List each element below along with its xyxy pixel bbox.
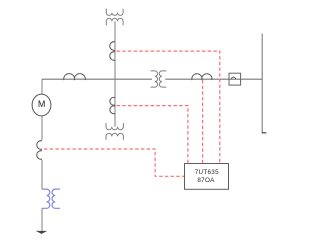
red dashed CT2 signal: right, down, right into relay left side: [44, 149, 184, 176]
wire: vertical from top transformer through feeder to bottom transformer: [114, 21, 116, 127]
busbar foot tick: [262, 132, 267, 134]
transformer T1 (grid infeed, top) upper winding: [106, 9, 123, 16]
CT2 current transformer on motor branch: [37, 141, 42, 160]
transformer T4 (blue, earthing) left winding: [42, 189, 50, 208]
meter bump inside square: [231, 77, 235, 79]
transformer T1 lower winding: [106, 18, 123, 25]
transformer T2 lower winding: [106, 133, 123, 140]
inductor L1 on feeder (left): [64, 74, 86, 80]
transformer T4 right winding: [52, 189, 60, 208]
inductor L2 on feeder (right): [192, 74, 212, 80]
svg-text:M: M: [38, 99, 46, 109]
svg-text:87OA: 87OA: [197, 177, 215, 184]
CT1 current transformer on main vertical: [110, 42, 115, 61]
relay box 7UT635: [185, 164, 229, 190]
CT3 current transformer below feeder junction: [110, 97, 115, 113]
wire: blue transformer to earth terminator: [41, 208, 43, 231]
meter/device square on feeder: [229, 73, 241, 85]
wire: CT2 to blue transformer: [41, 160, 43, 189]
svg-text:7UT635: 7UT635: [195, 169, 219, 176]
red dashed CT3 signal: right then down to relay: [117, 106, 188, 164]
red dashed inductor tap signal: down to relay: [202, 80, 204, 163]
busbar vertical right: [261, 34, 263, 133]
transformer T3 (horizontal, on feeder) left winding: [151, 71, 158, 87]
wire: motor branch vertical left: [41, 79, 43, 94]
wire: below motor to CT2: [41, 116, 43, 140]
transformer T3 right winding: [159, 71, 166, 87]
transformer T2 (bottom of main vertical) upper winding: [106, 123, 123, 130]
red dashed CT1 signal: right then down to relay: [117, 51, 220, 163]
earth terminator: [36, 231, 48, 234]
motor M1 circle: [32, 94, 51, 116]
wire: main feeder horizontal: [42, 78, 262, 80]
